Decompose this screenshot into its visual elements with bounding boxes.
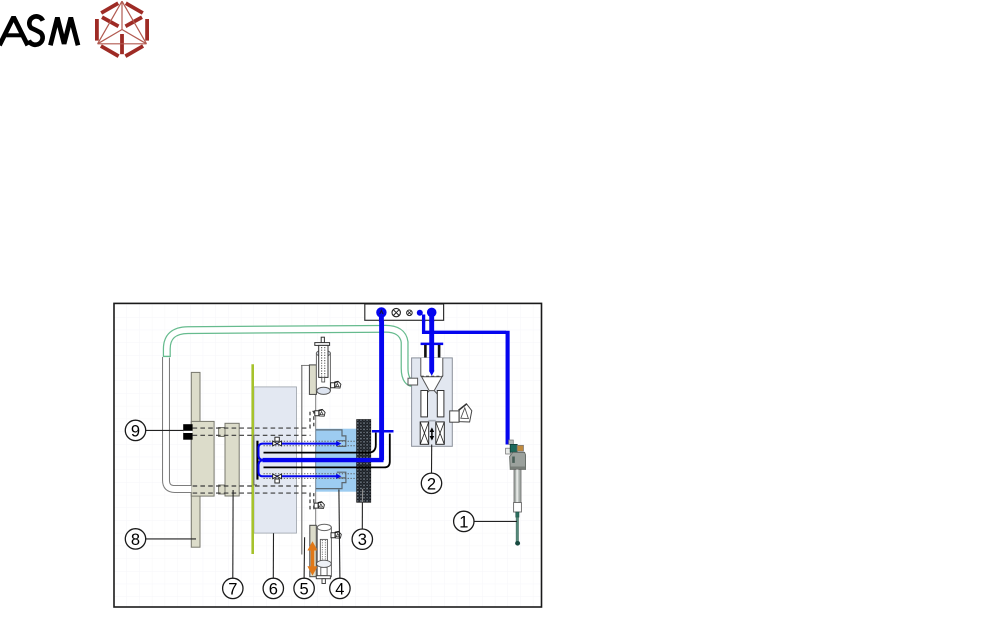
svg-text:8: 8 [131,531,140,549]
svg-text:6: 6 [269,580,278,598]
svg-text:2: 2 [427,475,436,493]
svg-text:3: 3 [358,531,367,549]
svg-text:5: 5 [300,580,309,598]
svg-text:1: 1 [459,513,468,531]
svg-text:7: 7 [228,580,237,598]
svg-text:9: 9 [131,422,140,440]
svg-text:4: 4 [335,580,344,598]
